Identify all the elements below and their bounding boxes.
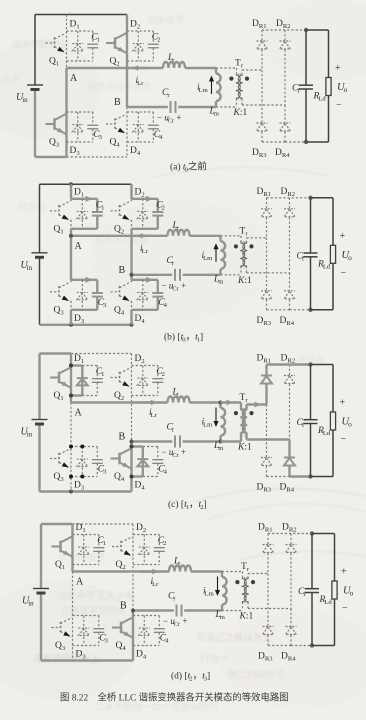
circuit (c): label Tr — [240, 393, 249, 404]
circuit (c): label Q1 — [54, 391, 64, 402]
circuit (c): wire rectifier bottom rail — [267, 476, 311, 478]
circuit (b): label - output — [341, 267, 347, 278]
circuit (c): wire output loop — [311, 365, 334, 477]
circuit (b): wire parallel box of Q2 — [132, 196, 158, 229]
svg-text:B: B — [120, 601, 127, 612]
circuit (d): label Uin — [22, 596, 34, 608]
circuit (a): wire rectifier left leg lower — [261, 70, 263, 123]
circuit (d): capacitor Cf — [305, 534, 319, 646]
circuit (c): diode DR4 — [284, 458, 295, 477]
circuit (d): wire rectifier left leg upper — [267, 534, 269, 545]
circuit (a): label Tr — [235, 59, 244, 70]
circuit (c): label iLr — [149, 408, 158, 419]
circuit (d): transistor Q2 — [112, 537, 133, 557]
circuit (c): node B junction dot — [130, 440, 134, 444]
circuit (c): wire leg of Q2 — [131, 354, 133, 442]
circuit (c): node output bottom dot — [308, 474, 312, 478]
circuit (c): node output top dot — [308, 362, 312, 366]
circuit (d): label iLr — [151, 577, 160, 588]
circuit (a): label Q2 — [110, 57, 120, 68]
circuit (d): label DR4 — [281, 652, 296, 663]
circuit (a): capacitor Cr — [171, 101, 176, 113]
circuit (c): label C4 — [158, 465, 167, 476]
caption (d) [t2, t3] — [171, 671, 210, 683]
circuit (a): resistor RLd — [326, 78, 331, 96]
circuit (c): junction dot at Q4 cell — [130, 445, 134, 449]
circuit (a): label -uCr+ — [157, 113, 181, 125]
circuit (d): capacitor C1 — [93, 535, 104, 565]
circuit (a): wire parallel box of Q2 — [127, 31, 153, 61]
circuit (c): diode D3 — [77, 447, 88, 477]
circuit (d): resistor RLd — [332, 581, 337, 599]
circuit (a): diode DR2 — [280, 41, 291, 105]
svg-text:−: − — [341, 434, 347, 445]
circuit (c): wire parallel box of Q3 — [71, 447, 97, 477]
circuit (c): label DR2 — [281, 354, 296, 365]
circuit (a): diode D1 — [72, 31, 83, 61]
circuit (c): junction dot at Q3 cell — [69, 475, 73, 479]
circuit (b): wire rectifier right leg lower — [289, 273, 291, 291]
circuit (a): label + output — [335, 63, 341, 74]
circuit (a): label Q1 — [49, 57, 59, 68]
circuit (b): wire transformer secondary top — [247, 238, 267, 243]
svg-text:图 8.22 全桥 LLC 谐振变换器各开关模态的等效电路图: 图 8.22 全桥 LLC 谐振变换器各开关模态的等效电路图 — [60, 692, 289, 704]
circuit (b): diode D3 — [77, 280, 88, 310]
svg-text:−: − — [341, 267, 347, 278]
circuit (b): node output bottom dot — [308, 308, 312, 312]
circuit (b): label + output — [340, 231, 346, 242]
circuit (b): label C3 — [98, 298, 107, 309]
circuit (b): node A junction dot — [69, 234, 73, 238]
circuit (c): label RLd — [317, 426, 331, 437]
circuit (c): label -uCr+ — [162, 447, 186, 459]
circuit (b): transistor Q2 — [111, 201, 132, 221]
circuit (a): capacitor C2 — [148, 31, 159, 61]
svg-text:(a) t0之前: (a) t0之前 — [170, 161, 207, 174]
circuit (b): label DR2 — [281, 187, 296, 198]
circuit (b): label Tr — [240, 226, 249, 237]
caption (b) [t0, t1] — [164, 332, 203, 344]
circuit (d): wire parallel box of Q2 — [133, 535, 159, 565]
circuit (a): wire parallel box of Q4 — [127, 112, 153, 142]
circuit (c): node B wire — [132, 440, 221, 442]
circuit (a): node output top dot — [304, 28, 308, 32]
circuit (b): transistor Q4 — [111, 282, 132, 302]
circuit (c): label - output — [341, 434, 347, 445]
circuit (a): diode DR1 — [257, 41, 268, 70]
circuit (a): wire parallel box of Q1 — [67, 31, 93, 61]
circuit (d): diode D1 — [78, 535, 89, 565]
circuit (c): diode D4 — [137, 447, 148, 477]
circuit (a): label D4 — [130, 146, 141, 157]
circuit (a): label DR1 — [252, 19, 267, 30]
circuit (b): capacitor C2 — [152, 199, 163, 229]
circuit (d): wire leg of Q1 — [71, 524, 73, 572]
circuit (d): wire parallel box of Q4 — [133, 616, 159, 646]
circuit (b): label Q1 — [54, 224, 64, 235]
figure caption 图8.22 — [60, 692, 289, 704]
circuit (a): label DR3 — [252, 148, 267, 159]
circuit (a): label C4 — [154, 130, 163, 141]
svg-text:可怎的: 可怎的 — [18, 201, 45, 212]
circuit (d): node output top dot — [310, 531, 314, 535]
circuit (c): junction dot at Q1 cell — [69, 364, 73, 368]
circuit (c): wire leg of Q1 — [70, 354, 72, 403]
circuit (c): label C2 — [156, 367, 165, 378]
circuit (b): wire leg of Q3 — [70, 236, 72, 325]
circuit (a): label Uo — [337, 82, 348, 94]
circuit (b): wire leg of Q1 — [70, 184, 72, 236]
circuit (d): label Lm — [215, 610, 226, 621]
circuit (c): label Q2 — [114, 391, 124, 402]
circuit (a): label RLd — [313, 92, 327, 103]
circuit (d): wire rectifier bottom rail — [268, 645, 312, 647]
circuit (c): wire transformer secondary top — [247, 402, 267, 410]
circuit (d): diode D3 — [78, 616, 89, 646]
circuit (c): label D2 — [135, 354, 145, 365]
circuit (b): inductor Lm — [221, 236, 226, 275]
circuit (a): label Q4 — [110, 138, 121, 149]
circuit (d): label Cr — [168, 592, 176, 603]
circuit (c): label DR1 — [257, 354, 272, 365]
circuit (a): wire parallel box of Q3 — [67, 112, 93, 142]
circuit (c): transistor Q3 — [50, 449, 71, 469]
svg-text:−: − — [342, 603, 348, 614]
circuit (a): current arrow iLr — [132, 65, 148, 70]
circuit (c): transistor Q4 — [111, 449, 132, 469]
circuit (a): label Lr — [167, 53, 175, 64]
circuit (c): wire rectifier top rail — [267, 363, 311, 365]
circuit (c): capacitor C3 — [92, 447, 103, 477]
circuit (c): label Lm — [213, 441, 224, 452]
circuit (c): label A — [75, 408, 83, 419]
svg-text:行为一: 行为一 — [200, 653, 229, 665]
circuit (b): resistor RLd — [330, 245, 335, 263]
circuit (d): node B wire — [133, 609, 222, 611]
circuit (c): wire leg of Q4 — [130, 442, 132, 492]
circuit (b): diode DR4 — [284, 291, 295, 310]
circuit (c): diode D1 — [77, 366, 88, 396]
circuit (d): label C4 — [160, 634, 169, 645]
circuit (a): label B — [114, 97, 121, 108]
circuit (a): transistor Q2 — [106, 33, 127, 53]
svg-text:同乡政情: 同乡政情 — [148, 14, 184, 25]
circuit (c): junction dot at Q3 cell — [80, 475, 84, 479]
circuit (b): label DR1 — [257, 187, 272, 198]
circuit (b): diode D2 — [137, 199, 148, 229]
circuit (d): wire rectifier right leg lower — [290, 609, 292, 627]
circuit (c): label + output — [340, 398, 346, 409]
svg-text:B: B — [119, 265, 126, 276]
circuit (b): wire output loop — [311, 198, 334, 310]
circuit (d): diode DR4 — [286, 627, 297, 646]
circuit (b): capacitor Cr — [175, 269, 180, 281]
circuit (d): label Q4 — [116, 641, 127, 652]
circuit (b): diode DR3 — [261, 291, 272, 310]
circuit (b): node B wire — [132, 274, 221, 276]
circuit (d): wire transformer secondary top — [248, 574, 268, 579]
circuit (c): diode DR3 — [261, 458, 272, 477]
circuit (d): label C3 — [99, 634, 108, 645]
circuit (d): label C2 — [158, 536, 167, 547]
circuit (d): label Uo — [343, 586, 354, 598]
circuit (a): diode D3 — [72, 112, 83, 142]
circuit (a): transistor Q4 — [106, 114, 127, 134]
circuit (d): label iLm — [203, 587, 215, 598]
circuit (b): capacitor C4 — [152, 280, 163, 310]
circuit (b): capacitor C1 — [92, 199, 103, 229]
circuit (b): label D2 — [135, 187, 145, 198]
circuit (d): node B junction dot — [131, 609, 135, 613]
circuit (c): current arrow iLm — [213, 408, 218, 428]
circuit (b): label Uin — [21, 260, 33, 272]
circuit (b): label D3 — [74, 314, 85, 325]
caption (a) t0之前 — [170, 161, 207, 174]
circuit (b): label -uCr+ — [162, 280, 186, 292]
circuit (b): diode DR1 — [261, 209, 272, 238]
circuit (a): wire output loop — [306, 30, 329, 142]
svg-text:A: A — [76, 577, 84, 588]
circuit (b): label DR4 — [280, 316, 295, 327]
circuit (d): label D3 — [76, 650, 87, 661]
circuit (c): capacitor Cf — [304, 365, 318, 477]
circuit (a): inductor Lr — [163, 62, 185, 68]
circuit (d): diode D4 — [139, 616, 150, 646]
circuit (b): label Cf — [297, 251, 305, 262]
circuit (a): diode D2 — [133, 31, 144, 61]
svg-text:K:1: K:1 — [239, 612, 254, 622]
circuit (c): resistor RLd — [330, 412, 335, 430]
circuit (a): label C3 — [93, 130, 102, 141]
svg-text:+: + — [341, 567, 347, 578]
circuit (d): capacitor C3 — [93, 616, 104, 646]
circuit (b): wire parallel box of Q1 — [71, 196, 97, 229]
circuit (d): battery Uin — [33, 524, 49, 661]
circuit (b): wire bottom rail — [40, 323, 134, 327]
circuit (c): current arrow iLr — [138, 400, 158, 405]
circuit (c): wire bottom rail — [40, 490, 132, 494]
circuit (d): label - output — [342, 603, 348, 614]
circuit (c): label Lr — [172, 388, 180, 399]
circuit (c): label iLm — [202, 418, 214, 429]
circuit (b): transistor Q1 — [50, 201, 71, 221]
circuit (b): capacitor C3 — [92, 280, 103, 310]
circuit (a): wire bottom rail — [35, 156, 127, 158]
circuit (c): label D1 — [74, 354, 84, 365]
circuit (a): transistor Q1 — [46, 33, 67, 53]
circuit (a): label D3 — [70, 146, 81, 157]
circuit (a): label C1 — [91, 33, 100, 44]
circuit (b): capacitor Cf — [304, 198, 318, 310]
circuit (a): label Cf — [292, 84, 300, 95]
circuit (c): label Cr — [167, 423, 175, 434]
circuit (c): label Q3 — [54, 472, 65, 483]
svg-text:通永中怒自枉: 通永中怒自枉 — [12, 38, 66, 49]
circuit (b): node B junction dot — [130, 273, 134, 277]
circuit (d): transistor Q3 — [52, 618, 73, 638]
circuit (d): node A wire with resonant inductor — [73, 570, 223, 572]
svg-text:A: A — [75, 241, 83, 252]
circuit (c): diode D2 — [137, 366, 148, 396]
circuit (c): wire top rail — [40, 352, 132, 354]
circuit (b): label B — [119, 265, 126, 276]
circuit (a): diode DR4 — [280, 123, 291, 142]
circuit (c): label C1 — [96, 367, 105, 378]
circuit (b): wire rectifier left leg lower — [266, 238, 268, 291]
circuit (b): battery Uin — [32, 184, 48, 324]
circuit (b): label C2 — [156, 200, 165, 211]
circuit (a): battery Uin — [27, 15, 43, 158]
circuit (a): label - output — [336, 100, 342, 111]
circuit (d): diode DR1 — [263, 545, 274, 574]
circuit (a): node B wire — [127, 106, 216, 108]
svg-text:+: + — [335, 63, 341, 74]
circuit (a): node output bottom dot — [304, 140, 308, 144]
circuit (d): label D1 — [76, 523, 86, 534]
circuit (c): inductor Lr — [168, 397, 190, 403]
circuit (a): wire top rail — [35, 14, 127, 16]
circuit (b): current arrow iLr — [137, 233, 153, 238]
circuit (b): wire leg of Q2 — [130, 184, 132, 274]
circuit (a): inductor Lm — [216, 68, 221, 107]
circuit (b): label K:1 — [237, 276, 252, 286]
circuit (a): capacitor Cf — [299, 30, 313, 142]
svg-text:A: A — [70, 73, 78, 84]
circuit (a): wire leg of Q3 — [65, 68, 67, 157]
circuit (b): label Q3 — [54, 305, 65, 316]
circuit (b): label Q2 — [114, 224, 124, 235]
circuit (d): label RLd — [319, 595, 333, 606]
circuit (b): diode D1 — [77, 199, 88, 229]
circuit (d): label K:1 — [239, 612, 254, 622]
circuit (d): wire leg of Q2 — [132, 524, 134, 611]
circuit (c): wire rectifier right leg lower — [288, 440, 290, 458]
circuit (b): label Q4 — [114, 305, 125, 316]
circuit (b): label D4 — [135, 314, 146, 325]
circuit (b): label A — [75, 241, 83, 252]
circuit (c): capacitor C2 — [152, 366, 163, 396]
circuit (c): diode DR1 — [261, 376, 272, 405]
circuit (b): inductor Lr — [168, 230, 190, 236]
circuit (b): wire rectifier left leg upper — [266, 198, 268, 209]
circuit (a): label DR2 — [276, 19, 291, 30]
circuit (c): capacitor Cr — [175, 436, 180, 448]
circuit (a): wire leg of Q4 — [126, 107, 128, 157]
circuit (d): wire top rail — [41, 523, 133, 525]
circuit (d): label C1 — [97, 536, 106, 547]
circuit (a): current arrow iLm — [209, 76, 214, 95]
circuit (b): node output top dot — [308, 196, 312, 200]
circuit (a): label C2 — [152, 33, 161, 44]
circuit (b): label C1 — [96, 200, 105, 211]
circuit (d): wire parallel box of Q3 — [73, 616, 99, 646]
circuit (d): wire output loop — [312, 534, 335, 646]
circuit (b): label D1 — [74, 187, 84, 198]
svg-text:张本: 张本 — [2, 73, 20, 84]
circuit (a): diode D4 — [133, 112, 144, 142]
circuit (c): label Cf — [297, 418, 305, 429]
circuit (a): wire transformer secondary bottom — [242, 98, 285, 105]
circuit (b): wire transformer primary — [221, 236, 242, 275]
circuit (b): wire top rail — [40, 182, 132, 186]
circuit (b): wire parallel box of Q4 — [132, 277, 158, 310]
circuit (d): wire rectifier right leg upper — [290, 534, 292, 545]
circuit (d): transistor Q1 — [52, 537, 73, 557]
circuit (a): label Uin — [16, 92, 28, 104]
circuit (c): label Uo — [342, 417, 353, 429]
circuit (d): label -uCr+ — [163, 616, 187, 628]
circuit (a): wire leg of Q2 — [126, 15, 128, 108]
circuit (c): label C3 — [98, 465, 107, 476]
circuit (d): capacitor C4 — [154, 616, 165, 646]
circuit (a): transistor Q3 — [46, 114, 67, 134]
circuit (d): capacitor C2 — [154, 535, 165, 565]
svg-text:−: − — [336, 100, 342, 111]
circuit (d): label + output — [341, 567, 347, 578]
circuit (d): diode DR3 — [263, 627, 274, 646]
circuit (d): diode DR2 — [286, 545, 297, 609]
circuit (c): wire rectifier right leg upper — [289, 365, 291, 376]
circuit (c): wire rectifier left leg upper — [265, 365, 267, 376]
circuit (d): label Lr — [173, 557, 181, 568]
circuit (d): wire leg of Q3 — [72, 572, 74, 661]
circuit (b): wire leg of Q4 — [130, 275, 132, 325]
circuit (b): node A wire with resonant inductor — [71, 235, 221, 237]
circuit (a): label D2 — [130, 20, 140, 31]
svg-text:K:1: K:1 — [237, 276, 252, 286]
circuit (d): transformer Tr — [235, 577, 255, 605]
circuit (c): wire parallel box of Q2 — [132, 366, 158, 396]
circuit (a): wire leg of Q1 — [66, 15, 68, 69]
circuit (c): junction dot at Q3 cell — [80, 445, 84, 449]
circuit (d): current arrow iLr — [139, 569, 159, 574]
circuit (c): junction dot at Q4 cell — [130, 475, 134, 479]
circuit (c): label B — [119, 432, 126, 443]
circuit (d): capacitor Cr — [177, 605, 182, 617]
circuit (c): wire rectifier left leg lower — [266, 405, 268, 458]
circuit (b): diode DR2 — [284, 209, 295, 273]
circuit (a): label iLm — [197, 83, 209, 94]
circuit (b): label C4 — [158, 298, 167, 309]
circuit (c): inductor Lm — [219, 401, 226, 444]
circuit (d): wire rectifier left leg lower — [267, 574, 269, 627]
circuit (a): diode DR3 — [257, 123, 268, 142]
circuit (b): wire rectifier bottom rail — [267, 309, 311, 311]
circuit (a): wire rectifier bottom rail — [262, 141, 306, 143]
svg-text:+: + — [340, 398, 346, 409]
circuit (c): junction dot at Q1 cell — [69, 394, 73, 398]
circuit (a): label K:1 — [233, 108, 248, 118]
circuit (a): capacitor C1 — [87, 31, 98, 61]
circuit (d): wire parallel box of Q1 — [73, 535, 99, 565]
circuit (d): label Q1 — [55, 560, 65, 571]
svg-text:K:1: K:1 — [237, 443, 252, 453]
circuit (d): label D2 — [136, 523, 146, 534]
circuit (b): label RLd — [317, 259, 331, 270]
circuit (b): wire parallel box of Q3 — [71, 277, 97, 310]
circuit (c): label DR3 — [257, 483, 272, 494]
circuit (b): wire rectifier right leg upper — [289, 198, 291, 209]
circuit (d): label D4 — [136, 650, 147, 661]
circuit (c): capacitor C4 — [152, 447, 163, 477]
circuit (d): wire leg of Q4 — [132, 611, 134, 661]
circuit (d): label Q3 — [55, 641, 66, 652]
circuit (a): transformer Tr — [229, 74, 249, 102]
circuit (d): label B — [120, 601, 127, 612]
circuit (c): label Q4 — [114, 472, 125, 483]
circuit (a): label A — [70, 73, 78, 84]
circuit (d): label DR3 — [258, 652, 273, 663]
